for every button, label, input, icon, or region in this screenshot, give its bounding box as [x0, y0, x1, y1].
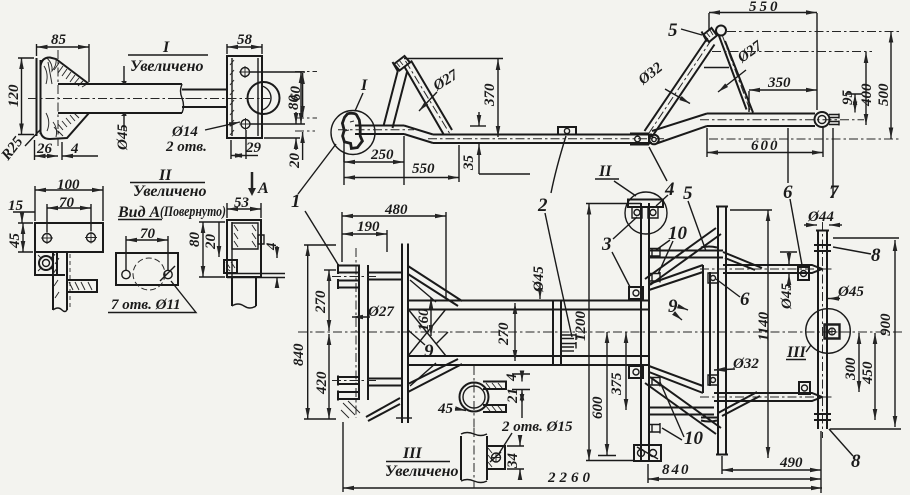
bolt on trapezoid bottom	[708, 375, 718, 385]
rear A-frame right leg d27	[719, 35, 754, 113]
svg-text:270: 270	[313, 290, 329, 314]
leader to label 2	[551, 136, 566, 193]
svg-text:Ø44: Ø44	[807, 209, 834, 225]
detail III ring	[460, 383, 489, 412]
svg-text:190: 190	[357, 219, 380, 235]
beam joint bracket	[630, 134, 649, 145]
dim 840 bottom	[647, 464, 649, 483]
hole top	[241, 68, 250, 77]
axle flange bottom	[814, 414, 831, 420]
svg-text:III: III	[786, 344, 806, 361]
rear top bracket	[628, 199, 663, 209]
svg-text:480: 480	[384, 202, 408, 218]
label 6 leader	[787, 128, 789, 183]
tube centrelines	[700, 268, 833, 270]
dim 29	[231, 130, 246, 159]
svg-text:70: 70	[140, 226, 156, 242]
svg-text:450: 450	[860, 361, 876, 385]
svg-text:2 отв.: 2 отв.	[165, 139, 207, 155]
dim 100	[35, 186, 103, 221]
svg-text:100: 100	[57, 177, 80, 193]
rear apex eye	[716, 26, 726, 36]
view A direction arrow	[251, 172, 254, 190]
bolt on trapezoid top	[708, 273, 718, 283]
top gusset	[41, 57, 90, 84]
svg-text:120: 120	[6, 84, 22, 107]
svg-text:1200: 1200	[573, 311, 589, 342]
svg-text:6: 6	[740, 289, 750, 310]
rear eye	[815, 112, 830, 127]
dim 70 (view A)	[126, 236, 168, 270]
dim 120	[18, 58, 34, 135]
label 6 upper leader	[790, 199, 802, 265]
svg-text:II: II	[598, 163, 612, 180]
dim 370	[404, 58, 503, 60]
svg-text:21: 21	[505, 388, 521, 404]
front flange tab top2	[338, 279, 360, 289]
long diag d32 top	[645, 228, 721, 285]
dim 375 plan	[625, 332, 627, 410]
hitch blob	[342, 113, 362, 148]
dim 600 plan	[606, 332, 608, 455]
hole left	[43, 234, 52, 243]
front flange tab bot2	[338, 391, 360, 401]
bracket plate (detail II)	[35, 223, 103, 252]
svg-text:95: 95	[840, 90, 856, 106]
svg-text:490: 490	[779, 455, 803, 471]
view A plate	[116, 253, 178, 285]
svg-text:10: 10	[684, 428, 704, 449]
detail III tube section	[461, 436, 487, 480]
centre beam section	[433, 135, 652, 144]
dim diam45	[123, 66, 125, 131]
svg-text:(Повернуто): (Повернуто)	[160, 204, 226, 220]
axle flange top	[814, 245, 831, 251]
svg-text:Ø45: Ø45	[779, 283, 795, 310]
dim 35	[470, 125, 486, 127]
front flange tab bot1	[338, 376, 360, 386]
end plate (detail I right)	[227, 56, 262, 138]
svg-text:34: 34	[505, 453, 521, 470]
clamp bars	[483, 381, 506, 391]
svg-text:420: 420	[314, 371, 330, 395]
dim 80 (side)	[199, 222, 225, 277]
trapezoid rear top diag	[649, 265, 703, 290]
svg-text:Увеличено: Увеличено	[385, 463, 459, 480]
bracket plate (detail I)	[37, 58, 41, 136]
dim 840 left	[304, 245, 336, 419]
beam kink	[404, 126, 433, 144]
svg-text:85: 85	[51, 32, 67, 48]
svg-text:26: 26	[36, 141, 53, 157]
svg-text:Вид А: Вид А	[117, 204, 161, 221]
clamp on upper tube	[798, 267, 809, 280]
main centreline plan	[298, 331, 905, 333]
svg-text:840: 840	[291, 343, 307, 366]
svg-text:350: 350	[767, 75, 791, 91]
top tie bracket	[368, 273, 402, 280]
tube d45	[58, 84, 182, 113]
svg-text:Ø27: Ø27	[367, 304, 394, 320]
rear frame left member	[641, 203, 649, 462]
front axle tube	[359, 265, 368, 400]
dim 550 front	[458, 145, 460, 182]
svg-text:III: III	[402, 445, 422, 462]
leader 2 lower	[545, 213, 572, 337]
beam mid bracket	[558, 127, 576, 135]
backbone top rail	[408, 301, 648, 310]
dim 4 (side)	[276, 246, 278, 258]
svg-text:400: 400	[859, 83, 875, 107]
svg-text:II: II	[158, 167, 172, 184]
rear apex stub	[704, 28, 718, 42]
upper right tube	[723, 265, 822, 273]
svg-text:4: 4	[504, 373, 520, 382]
svg-text:80: 80	[187, 232, 203, 248]
dim 80	[250, 72, 305, 124]
hole right	[87, 233, 96, 242]
dim 270 rails	[514, 303, 516, 361]
tube from left	[182, 90, 227, 108]
svg-text:20: 20	[203, 234, 219, 251]
backbone-rear bracket bottom	[629, 366, 643, 378]
upper jog diagonal	[723, 252, 762, 270]
svg-text:I: I	[360, 77, 368, 94]
svg-text:4: 4	[264, 242, 280, 251]
front flange tab top1	[338, 264, 360, 274]
svg-text:550: 550	[412, 161, 435, 177]
trapezoid rear right vertical	[703, 265, 710, 393]
dim 21 (clamp)	[512, 389, 530, 391]
upper crossbar rear	[649, 251, 723, 258]
lower right tube	[714, 393, 822, 401]
member clamps 10	[649, 247, 660, 258]
svg-text:6: 6	[783, 182, 793, 203]
rear beam	[707, 114, 815, 127]
svg-text:375: 375	[609, 372, 625, 396]
seat pad top	[701, 247, 717, 251]
svg-text:2: 2	[537, 195, 548, 216]
svg-text:270: 270	[496, 322, 512, 346]
svg-text:Ø32: Ø32	[732, 356, 759, 372]
tube below	[232, 278, 256, 306]
long diag d32 bottom	[645, 377, 721, 434]
svg-text:4: 4	[70, 141, 79, 157]
svg-text:250: 250	[370, 147, 394, 163]
reference line 400 top	[712, 51, 872, 53]
dim 34	[507, 446, 524, 469]
hole bottom	[241, 120, 250, 129]
svg-text:Ø45: Ø45	[115, 124, 131, 151]
svg-text:60: 60	[288, 86, 304, 102]
svg-text:370: 370	[482, 83, 498, 107]
dim 4 (clamp)	[512, 373, 530, 375]
clamp on lower tube	[799, 382, 810, 394]
left stray dims	[295, 72, 317, 119]
dim 58	[227, 44, 262, 54]
svg-text:I: I	[162, 39, 170, 56]
svg-text:600: 600	[751, 138, 780, 154]
dim 500	[890, 32, 892, 139]
mid crossbar backbone	[553, 301, 561, 365]
rear slope beam	[652, 114, 707, 144]
svg-text:Ø45: Ø45	[837, 284, 864, 300]
svg-text:5: 5	[683, 183, 693, 204]
rear axle tube	[816, 231, 829, 430]
backbone-rear bracket top	[629, 287, 643, 299]
seat pad bottom	[701, 418, 717, 422]
dim 250	[344, 136, 404, 185]
dim 900	[830, 238, 901, 429]
svg-text:5: 5	[668, 20, 678, 41]
boss with bolt	[35, 252, 57, 275]
svg-text:2 отв. Ø15: 2 отв. Ø15	[501, 419, 573, 435]
tube centerline	[28, 98, 196, 100]
trapezoid diagonal bottom	[408, 359, 462, 392]
svg-text:2260: 2260	[547, 470, 594, 486]
svg-text:8: 8	[871, 245, 881, 266]
dim 190	[386, 230, 388, 252]
dim 85	[37, 44, 90, 82]
dim 4	[62, 155, 98, 157]
trapezoid rear bottom diag	[649, 366, 703, 393]
dim 95	[845, 93, 862, 95]
svg-text:45: 45	[437, 401, 454, 417]
lower crossbar rear	[649, 408, 714, 415]
trapezoid diagonal top	[408, 266, 462, 306]
label 7 leader	[832, 128, 834, 198]
dim 20 (side)	[218, 222, 220, 257]
svg-text:600: 600	[590, 396, 606, 419]
dim 490	[722, 431, 821, 493]
svg-text:160: 160	[416, 308, 432, 331]
side tab	[67, 280, 97, 292]
axle nut	[825, 325, 840, 339]
svg-text:А: А	[257, 180, 269, 197]
backbone bottom rail	[408, 356, 648, 365]
dim 1140	[730, 209, 772, 211]
dim 160	[430, 298, 432, 336]
rear bottom foot	[634, 445, 661, 461]
svg-text:53: 53	[234, 195, 250, 211]
dim 400	[865, 52, 867, 125]
dim 480	[342, 212, 446, 298]
svg-text:500: 500	[876, 83, 892, 106]
lower jog diagonal	[718, 392, 760, 416]
dim 300	[858, 333, 860, 392]
svg-text:1: 1	[291, 191, 301, 212]
dim 270 left	[324, 269, 336, 271]
svg-text:29: 29	[245, 140, 262, 156]
dim 1200	[586, 203, 641, 205]
dim 600 rear	[707, 127, 823, 157]
dim 450	[874, 333, 876, 420]
dim 350	[748, 91, 750, 112]
svg-text:15: 15	[8, 198, 24, 214]
dim 45	[18, 223, 33, 252]
svg-text:3: 3	[601, 234, 612, 255]
centreline through apex	[727, 31, 899, 33]
svg-text:70: 70	[59, 195, 75, 211]
svg-text:Ø14: Ø14	[171, 124, 198, 140]
second member rear	[716, 207, 728, 455]
angle web below	[35, 252, 67, 310]
dim 53	[227, 203, 261, 218]
svg-text:45: 45	[7, 233, 23, 250]
front beam section	[355, 126, 404, 135]
tab centrelines	[332, 277, 376, 381]
bottom gusset	[41, 113, 90, 139]
svg-text:840: 840	[662, 462, 691, 478]
svg-text:7 отв. Ø11: 7 отв. Ø11	[111, 297, 181, 313]
front vertical plate	[402, 244, 408, 424]
svg-text:Увеличено: Увеличено	[130, 58, 204, 75]
svg-text:58: 58	[237, 32, 253, 48]
crossbar clamps	[561, 334, 576, 349]
front A-frame right leg	[404, 61, 452, 136]
tube end circle	[248, 82, 280, 114]
dim 26	[34, 140, 36, 160]
svg-text:1140: 1140	[756, 311, 772, 341]
svg-text:9: 9	[424, 341, 434, 362]
svg-text:8: 8	[851, 451, 861, 472]
rear gusset line	[704, 67, 729, 69]
bottom tie bracket	[368, 379, 402, 386]
front plate foot + gusset	[366, 398, 400, 417]
svg-text:10: 10	[668, 223, 688, 244]
svg-text:35: 35	[461, 155, 477, 172]
dim 550 rear top	[709, 13, 817, 110]
svg-text:Ø45: Ø45	[531, 266, 547, 293]
svg-text:300: 300	[843, 357, 859, 381]
balloon II circle	[625, 192, 667, 234]
dim 15	[13, 211, 35, 213]
balloon III circle	[806, 309, 851, 354]
reference line bottom	[709, 138, 899, 140]
dim 420 left	[328, 334, 330, 419]
svg-text:Увеличено: Увеличено	[133, 183, 207, 200]
front A-frame left leg	[384, 70, 408, 128]
detail II side view (53)	[227, 220, 261, 277]
svg-text:900: 900	[878, 313, 894, 336]
eye prongs	[829, 114, 839, 119]
front apex stub	[394, 56, 410, 71]
dim 20	[264, 137, 300, 139]
centerline vertical	[57, 50, 59, 146]
rear A-frame left leg d32	[645, 38, 715, 138]
balloon I circle	[331, 111, 375, 155]
svg-text:7: 7	[829, 182, 840, 203]
inner X braces	[408, 309, 446, 356]
bracket with holes	[487, 446, 505, 469]
dim 70 (holes)	[47, 204, 91, 232]
svg-text:550: 550	[749, 0, 781, 15]
dim 2260	[342, 422, 344, 492]
svg-text:20: 20	[287, 153, 303, 170]
svg-text:9: 9	[668, 296, 678, 317]
